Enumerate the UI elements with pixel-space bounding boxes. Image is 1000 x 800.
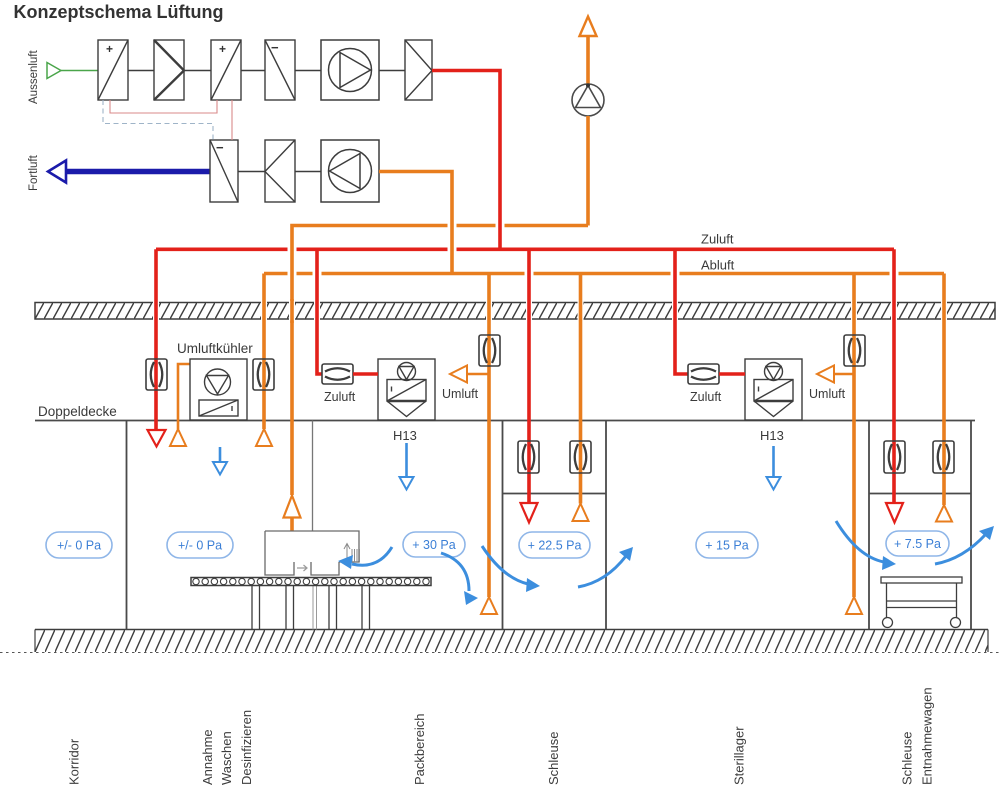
wire stack lower [586, 116, 590, 226]
svg-text:+ 7.5 Pa: + 7.5 Pa [894, 537, 941, 551]
extract arrow orange Annahme [256, 429, 272, 446]
machine pass arrow [297, 565, 307, 571]
wire S3-V2 [295, 171, 321, 173]
white casings where ducts cross ceiling slab [156, 301, 944, 321]
damper D6 Schleuse1 orange [570, 441, 591, 473]
svg-text:Zuluft: Zuluft [690, 390, 722, 404]
svg-text:Aussenluft: Aussenluft [28, 49, 40, 104]
wire Umluft Packbereich [467, 373, 489, 376]
svg-text:Korridor: Korridor [67, 738, 82, 785]
control wire dashed [103, 100, 213, 140]
airflow arrow out of Schleuse2 [935, 526, 994, 564]
wire Abluft trunk orange [264, 272, 944, 276]
cooler C1 (-) [265, 40, 295, 100]
H13 unit Packbereich [378, 359, 435, 420]
roof exhaust arrow [580, 17, 597, 37]
wire red damper to H13 Packbereich [353, 372, 378, 376]
supply arrow red Schleuse2 [886, 503, 903, 523]
svg-text:H13: H13 [760, 428, 784, 443]
pressure bubble Packbereich [403, 532, 465, 557]
wire E1-S3 [238, 171, 265, 173]
wire F1-S1 [128, 70, 154, 72]
svg-text:−: − [271, 40, 279, 55]
wire red drop Schleuse 2 [892, 249, 896, 503]
extract arrow orange Schleuse2 [936, 505, 952, 522]
airflow arrow Packbereich to Schleuse [441, 553, 478, 605]
wire orange machine duct over slab [290, 299, 294, 323]
damper D4 Packbereich Umluft [479, 335, 500, 366]
svg-text:Waschen: Waschen [219, 731, 234, 785]
conveyor band [191, 578, 431, 586]
svg-text:Annahme: Annahme [200, 729, 215, 785]
H13 unit Sterillager [745, 359, 802, 420]
svg-text:Umluft: Umluft [442, 387, 479, 401]
wire orange extract feed [379, 172, 452, 274]
conveyor rollers [193, 578, 429, 584]
damper D7 Sterillager Zuluft [688, 364, 719, 384]
recirculation cooler unit [190, 359, 247, 420]
blue supply arrow Sterillager H13 [767, 446, 781, 490]
svg-text:+ 15 Pa: + 15 Pa [705, 539, 748, 553]
wire red supply feed [432, 71, 500, 248]
damper D9 Schleuse2 red [884, 441, 905, 473]
heater E1 (-) [210, 140, 238, 202]
silencer S3 [265, 140, 295, 202]
extract fan V2 [321, 140, 379, 202]
svg-text:Desinfizieren: Desinfizieren [239, 710, 254, 785]
svg-text:Zuluft: Zuluft [324, 390, 356, 404]
extract arrow orange Packbereich floor [481, 597, 497, 614]
svg-text:Konzeptschema Lüftung: Konzeptschema Lüftung [14, 2, 224, 22]
stack fan [572, 84, 604, 117]
damper D1 red Annahme [146, 359, 167, 390]
wire green inlet [61, 70, 98, 72]
svg-text:+ 22.5 Pa: + 22.5 Pa [528, 539, 582, 553]
wire red drop Schleuse 1 [527, 249, 531, 503]
supply arrow red Schleuse1 [521, 503, 538, 523]
wire red drop Sterillager H13 [675, 249, 688, 374]
svg-text:Umluft: Umluft [809, 387, 846, 401]
svg-text:Fortluft: Fortluft [28, 154, 40, 191]
airflow arrow Schleuse1 to Sterillager [578, 547, 633, 587]
blue supply arrow Packbereich H13 [400, 443, 414, 490]
damper D2 orange Annahme [253, 359, 274, 390]
wall Packbereich/Schleuse [502, 421, 504, 630]
wire Zuluft trunk red [156, 248, 894, 252]
floor slab hatched band [0, 630, 1000, 653]
silencer S1 [154, 40, 184, 100]
sub-ceiling Schleuse 2 [869, 493, 971, 495]
airflow arrow into machine [338, 547, 392, 569]
wall Korridor/Annahme [126, 421, 128, 630]
svg-text:Schleuse: Schleuse [546, 732, 561, 785]
wire S1-F2 [184, 70, 211, 72]
damper D8 Sterillager orange [844, 335, 865, 366]
wire red drop Packbereich H13 [317, 249, 322, 374]
pressure bubble Sterillager [696, 532, 758, 558]
wire orange Umluftkuehler intake [178, 364, 190, 429]
airflow arrow into Schleuse1 [482, 546, 540, 592]
airflow arrow Sterillager to Schleuse2 [836, 521, 896, 570]
svg-text:+/- 0 Pa: +/- 0 Pa [178, 539, 222, 553]
Umluft arrow Packbereich [450, 366, 467, 383]
svg-text:+ 30 Pa: + 30 Pa [412, 538, 455, 552]
conveyor legs [252, 586, 370, 630]
blue supply arrow Annahme [213, 447, 227, 475]
wire orange drop Schleuse 2 [942, 274, 946, 506]
Umluft arrow Sterillager [817, 366, 834, 383]
wall remnant below conveyor [313, 586, 317, 630]
damper D5 Schleuse1 red [518, 441, 539, 473]
silencer S2 [405, 40, 432, 100]
extract arrow orange Sterillager floor [846, 597, 862, 614]
washer machine pass-through [265, 531, 359, 575]
svg-text:Schleuse: Schleuse [900, 732, 915, 785]
svg-text:+: + [219, 42, 226, 56]
wire orange drop Annahme [262, 274, 266, 430]
suspended ceiling line (Doppeldecke) [35, 420, 975, 422]
svg-text:Doppeldecke: Doppeldecke [38, 404, 117, 419]
pressure bubble Korridor [46, 532, 112, 558]
wall right outer [970, 421, 972, 630]
wire red damper to H13 Sterillager [719, 372, 745, 376]
wire blue Fortluft [66, 169, 210, 175]
pressure bubble Annahme [167, 532, 233, 558]
Fortluft arrow [48, 161, 66, 183]
extract arrow orange cooler intake [170, 429, 186, 446]
svg-text:Umluftkühler: Umluftkühler [177, 341, 253, 356]
machine internal grate [344, 544, 360, 563]
wire C1-V1 [295, 70, 321, 72]
ceiling slab hatched band [35, 303, 995, 320]
svg-text:Packbereich: Packbereich [412, 713, 427, 785]
svg-text:+: + [106, 42, 113, 56]
control wire thin red [110, 100, 232, 140]
supply arrow red Annahme [148, 430, 166, 447]
filter F2 (+) [211, 40, 241, 100]
sub-ceiling Schleuse 1 [503, 493, 607, 495]
supply fan V1 [321, 40, 379, 100]
wire Umluft Sterillager [834, 373, 854, 376]
wire orange drop Sterillager [852, 274, 856, 598]
svg-text:+/- 0 Pa: +/- 0 Pa [57, 539, 101, 553]
svg-text:Abluft: Abluft [701, 258, 735, 273]
Aussenluft arrow [47, 63, 61, 79]
svg-text:Entnahmewagen: Entnahmewagen [920, 687, 935, 785]
wall Schleuse/Sterillager [605, 421, 607, 630]
extract arrow orange machine [284, 496, 301, 518]
wire F2-C1 [241, 70, 265, 72]
damper D10 Schleuse2 orange [933, 441, 954, 473]
pressure bubble Schleuse2 [886, 531, 949, 556]
svg-text:H13: H13 [393, 428, 417, 443]
wall Annahme/Packbereich (upper part to machine) [312, 421, 314, 532]
wire V1-S2 [379, 70, 405, 72]
wire orange drop Schleuse 1 [579, 274, 583, 504]
svg-text:−: − [216, 140, 224, 155]
svg-text:Zuluft: Zuluft [701, 232, 734, 247]
pressure bubble Schleuse1 [519, 532, 590, 558]
wire orange roof line [292, 226, 588, 496]
wire red drop Annahme [154, 249, 158, 430]
Entnahmewagen cart [881, 577, 962, 628]
extract arrow orange Schleuse1 [573, 504, 589, 522]
wire stack upper [586, 36, 590, 84]
wire orange machine stem [290, 517, 294, 531]
wire orange drop Packbereich Umluft [487, 274, 491, 598]
wall Sterillager/Schleuse2 [868, 421, 870, 630]
filter F1 (+) [98, 40, 128, 100]
svg-text:Sterillager: Sterillager [732, 726, 747, 785]
damper D3 Packbereich Zuluft [322, 364, 353, 384]
